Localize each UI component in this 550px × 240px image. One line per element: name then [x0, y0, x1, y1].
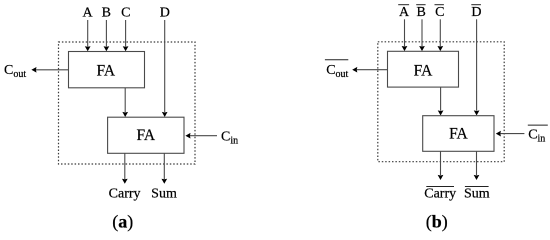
svg-text:B: B [417, 5, 426, 20]
label Sum-bar (b) [464, 186, 490, 201]
svg-text:A: A [82, 6, 93, 21]
input label D [160, 6, 170, 21]
svg-text:FA: FA [96, 62, 115, 79]
full adder FA2 (b) [423, 116, 494, 152]
input label A-bar [398, 5, 410, 21]
output wire Carry-bar (b) [438, 151, 444, 180]
dashed enclosure (b) [378, 42, 504, 162]
input label B-bar [416, 5, 426, 21]
svg-text:B: B [102, 6, 111, 21]
input label D-bar [471, 5, 481, 21]
wire D-bar [474, 19, 480, 115]
wire A-bar [402, 19, 408, 51]
input label C [121, 6, 130, 21]
svg-text:Cin: Cin [221, 129, 238, 146]
svg-text:D: D [471, 5, 481, 20]
svg-text:Cin: Cin [528, 127, 545, 144]
label Carry (a) [109, 187, 141, 202]
input C_in-bar (b) : wire [496, 131, 525, 137]
svg-text:D: D [160, 6, 170, 21]
caption (b) [426, 212, 448, 233]
full adder FA1 (a) [69, 52, 145, 88]
wire B-bar [419, 19, 425, 51]
output wire Sum (a) [161, 153, 167, 184]
output C_out (a) : wire [31, 67, 68, 73]
label C_in-bar (b) [528, 125, 548, 144]
wire C [123, 20, 129, 51]
svg-text:A: A [399, 5, 410, 20]
label Carry-bar (b) [424, 186, 456, 201]
label C_in (a) [221, 129, 238, 146]
svg-text:Carry: Carry [424, 186, 456, 201]
output C_out-bar (b) : wire [352, 67, 387, 73]
svg-text:Cout: Cout [4, 63, 26, 80]
svg-text:Sum: Sum [464, 186, 490, 201]
label C_out-bar (b) [325, 60, 349, 80]
full adder FA1 (b) [388, 51, 459, 87]
wire FA1 to FA2 (b) [438, 87, 444, 115]
svg-text:Sum: Sum [151, 187, 177, 202]
output wire Sum-bar (b) [474, 151, 480, 180]
full adder FA2 (a) [108, 117, 184, 153]
wire FA1 to FA2 (a) [122, 88, 128, 117]
label Sum (a) [151, 187, 177, 202]
svg-text:Carry: Carry [109, 187, 141, 202]
wire A [85, 20, 91, 51]
svg-text:(b): (b) [426, 212, 448, 233]
caption (a) [112, 212, 133, 233]
svg-text:FA: FA [449, 125, 468, 142]
label C_out (a) [4, 63, 26, 80]
svg-text:C: C [435, 5, 444, 20]
dashed enclosure (a) [59, 42, 196, 164]
input label C-bar [435, 5, 445, 21]
wire D [162, 20, 168, 117]
input C_in (a) : wire [185, 133, 217, 139]
svg-text:FA: FA [414, 62, 433, 79]
wire B [104, 20, 110, 51]
svg-text:(a): (a) [112, 212, 133, 233]
input label B [102, 6, 111, 21]
svg-text:FA: FA [136, 127, 155, 144]
svg-text:Cout: Cout [326, 63, 348, 80]
wire C-bar [437, 19, 443, 51]
output wire Carry (a) [122, 153, 128, 184]
svg-text:C: C [121, 6, 130, 21]
input label A [82, 6, 93, 21]
